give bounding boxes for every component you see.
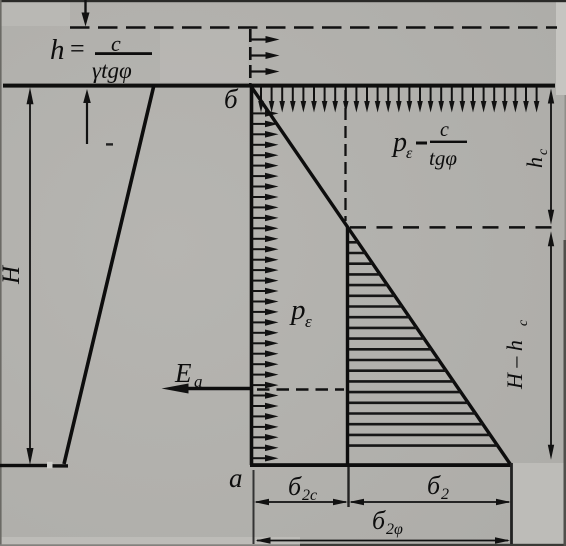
dimension line sigma_2phi: [257, 540, 508, 542]
svg-text:h: h: [522, 157, 547, 168]
pressure diagram hypotenuse line b to base: [252, 87, 511, 465]
scan artifact: light spot at wall base gap: [47, 462, 53, 469]
arrow: h measurement from above: [84, 0, 86, 16]
retaining wall back face (sloped): [64, 85, 154, 464]
dashed line at E_a level: [257, 388, 344, 390]
svg-text:H: H: [0, 264, 25, 285]
label p_eps on wall pressure zone: [289, 294, 312, 331]
dimension line sigma_2c: [256, 501, 346, 503]
extension line below sigma_2c boundary: [347, 467, 349, 507]
label h_c: [522, 148, 551, 168]
svg-text:a: a: [194, 372, 203, 391]
svg-text:tgφ: tgφ: [429, 146, 457, 170]
svg-text:p: p: [391, 127, 407, 158]
dashed line: top of equivalent surcharge layer: [70, 26, 557, 29]
svg-text:γtgφ: γtgφ: [92, 58, 132, 83]
svg-text:c: c: [536, 148, 551, 155]
pressure diagram base line a to corner: [250, 463, 511, 467]
label sigma_2: [427, 471, 449, 503]
svg-text:E: E: [174, 358, 192, 388]
tick mark: [106, 143, 113, 145]
svg-text:h: h: [50, 34, 65, 66]
svg-text:=: =: [70, 34, 85, 63]
dashed wall face extension above ground: [249, 29, 252, 84]
distributed surcharge arrows below ground line: [258, 88, 539, 113]
formula label p_eps = c/tg(phi): [391, 119, 467, 170]
pressure triangle left edge: [346, 227, 349, 465]
photo border left: [0, 0, 2, 546]
label sigma_2c: [288, 472, 317, 504]
formula label h = c/(gamma tg phi): [50, 31, 152, 83]
resultant force E_a arrow: [172, 387, 253, 391]
svg-text:ε: ε: [305, 312, 312, 331]
photo border bottom: [0, 544, 300, 546]
extension line below a: [253, 470, 255, 544]
svg-text:H – h: H – h: [502, 340, 527, 390]
dashed horizontal line at depth h_c: [350, 226, 558, 229]
arrows: pressure above ground (3 small): [251, 36, 280, 75]
dimension line H minus h_c: [550, 241, 552, 450]
svg-text:б: б: [427, 471, 441, 500]
arrow: h measurement from below ground: [86, 102, 88, 144]
svg-text:ε: ε: [406, 145, 413, 162]
label sigma_2phi: [372, 506, 403, 538]
svg-text:2c: 2c: [302, 487, 317, 504]
photo border top: [0, 0, 566, 2]
ground surface line: [3, 84, 555, 88]
dimension line H: [29, 98, 31, 455]
distributed pressure arrows on wall face (p_eps): [252, 110, 279, 461]
svg-text:c: c: [440, 119, 449, 141]
dimension line sigma_2: [351, 501, 509, 503]
pressure triangle hatching: [349, 242, 498, 445]
dashed vertical line at sigma_2c width: [344, 90, 346, 221]
dimension line h_c: [550, 98, 552, 215]
svg-text:a: a: [229, 463, 243, 493]
extension line below right corner: [510, 463, 513, 544]
svg-text:б: б: [372, 506, 386, 535]
svg-text:c: c: [516, 319, 531, 326]
wall face b-a (vertical): [250, 84, 254, 465]
svg-text:2φ: 2φ: [386, 521, 403, 538]
svg-text:б: б: [224, 84, 239, 114]
label E_a: [174, 358, 203, 391]
svg-text:б: б: [288, 472, 302, 501]
svg-text:p: p: [289, 294, 306, 326]
svg-text:2: 2: [441, 486, 449, 503]
wall base / excavation line left: [0, 464, 49, 467]
label H - h_c: [502, 319, 531, 390]
photo border right: [565, 95, 566, 240]
